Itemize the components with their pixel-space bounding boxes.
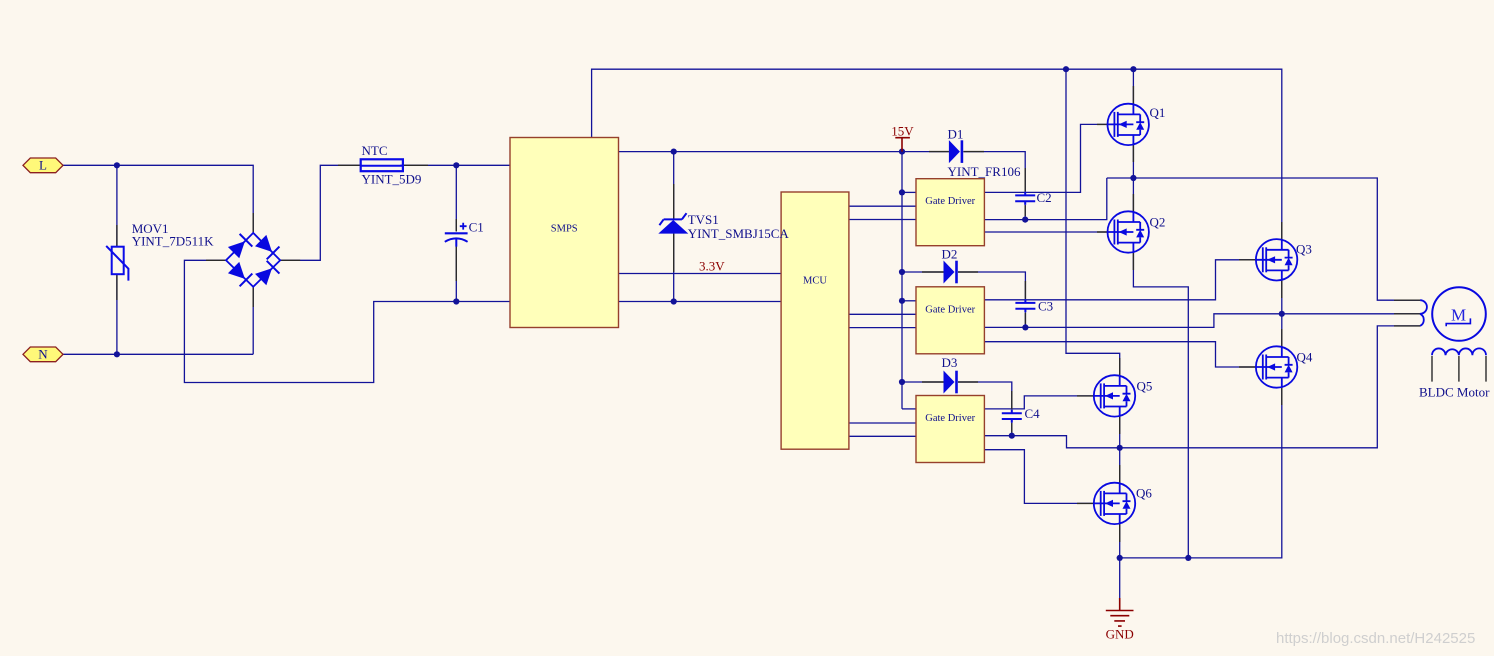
pin stubs D2 [922, 271, 978, 273]
svg-text:Q2: Q2 [1150, 215, 1166, 230]
capacitor C3 [1015, 299, 1053, 314]
wire 15V to gate driver 1 [902, 191, 916, 193]
svg-text:D3: D3 [942, 355, 958, 370]
bridge diode upper-right [254, 234, 279, 259]
bridge diode lower-left [227, 261, 252, 286]
power port 15V [891, 124, 914, 152]
wire gate driver 1 VS to phase A [984, 178, 1106, 220]
block SMPS [510, 138, 619, 328]
junction N-MOV [114, 351, 120, 357]
wire 15V net SMPS to D1 [619, 151, 949, 153]
pin stubs D1 [929, 151, 984, 153]
wire gate driver 3 VS to phase C [984, 436, 1119, 448]
wire bridge positive to NTC [280, 165, 361, 260]
wire 15V vertical distribution [901, 152, 903, 409]
junction rail Q1 [1130, 66, 1136, 72]
svg-text:Q1: Q1 [1150, 105, 1166, 120]
svg-text:BLDC Motor: BLDC Motor [1419, 385, 1490, 400]
wire rail to Q5 drain [1066, 69, 1120, 375]
svg-text:Gate Driver: Gate Driver [925, 413, 975, 424]
svg-text:YINT_SMBJ15CA: YINT_SMBJ15CA [688, 226, 790, 241]
pin stubs Q4 [1239, 329, 1282, 405]
wire MCU to gate driver 3 signal 1 [849, 422, 916, 424]
junction L-MOV [114, 162, 120, 168]
connector L [23, 158, 63, 173]
wire phase C to motor [1120, 326, 1420, 448]
pin stubs Q6 [1077, 465, 1120, 542]
junction C2 VS-A [1022, 217, 1028, 223]
wire MOV1 branch [116, 165, 118, 354]
wire L to bridge top [63, 165, 253, 233]
wire MCU to gate driver 1 signal 1 [849, 205, 916, 207]
wire Q6 drain [1119, 448, 1121, 483]
junction 15V D3 [899, 379, 905, 385]
diode D1 [948, 127, 1021, 180]
capacitor C1 [445, 220, 484, 247]
svg-text:MCU: MCU [803, 276, 827, 287]
wire 15V to D3 anode [902, 381, 944, 383]
svg-text:YINT_5D9: YINT_5D9 [362, 172, 422, 187]
transistor Q5 [1094, 375, 1153, 416]
junction 15V GD2 [899, 298, 905, 304]
pin legs motor coil [1432, 356, 1486, 382]
svg-text:N: N [38, 347, 48, 362]
transistor Q6 [1094, 483, 1153, 524]
wire 15V to gate driver 2 [902, 300, 916, 302]
svg-text:Q6: Q6 [1136, 486, 1152, 501]
wire gate driver 1 HO to Q1 gate [984, 124, 1107, 192]
pin stubs MOV1 [116, 225, 118, 300]
wire Q2 source to ground rail [1133, 253, 1188, 558]
svg-text:L: L [39, 158, 47, 173]
wire Q1 source [1132, 145, 1134, 178]
diode D3 [942, 355, 958, 394]
wire N to bridge bottom [63, 287, 253, 355]
bridge rectifier diamond [226, 233, 280, 287]
junction phase B node [1279, 311, 1285, 317]
pin stubs Q3 [1239, 222, 1282, 298]
pin stubs motor [1394, 300, 1420, 326]
svg-text:C1: C1 [469, 220, 484, 235]
wire C2 bottom to VS-A [1024, 205, 1026, 220]
pin stubs C2 [1024, 168, 1026, 216]
junction phase A node [1130, 175, 1136, 181]
junction phase C node [1117, 445, 1123, 451]
junction C3 VS-B [1022, 324, 1028, 330]
wire ground stem [1119, 558, 1121, 598]
pin stubs bridge [206, 213, 300, 307]
svg-text:Q3: Q3 [1296, 242, 1312, 257]
TVS diode TVS1 [658, 212, 789, 241]
wire 15V to D2 anode [902, 271, 944, 273]
svg-text:C4: C4 [1025, 406, 1041, 421]
svg-text:https://blog.csdn.net/H242525: https://blog.csdn.net/H242525 [1276, 630, 1475, 647]
wire gate driver 3 HO to Q5 gate [984, 396, 1093, 409]
pin stubs Q1 [1097, 86, 1133, 162]
junction C4 VS-C [1009, 433, 1015, 439]
svg-text:Q4: Q4 [1297, 350, 1313, 365]
block MCU [781, 192, 849, 449]
motor coil inductor [1432, 348, 1486, 355]
pin stubs Q2 [1097, 194, 1133, 270]
wire gate driver 3 LO to Q6 gate [984, 450, 1093, 504]
wire Q5 source [1119, 417, 1121, 448]
pin stubs Q5 [1077, 358, 1120, 434]
wire bridge negative to SMPS bottom-left [184, 260, 510, 382]
svg-text:Q5: Q5 [1137, 379, 1153, 394]
svg-text:15V: 15V [891, 124, 914, 139]
wire D1 cathode to C2 [963, 152, 1025, 192]
transistor Q3 [1256, 239, 1312, 280]
svg-text:3.3V: 3.3V [699, 259, 725, 274]
transistor Q4 [1256, 346, 1313, 387]
svg-text:YINT_7D511K: YINT_7D511K [132, 234, 214, 249]
wire 3.3V net SMPS to MCU [619, 273, 782, 275]
junction 15V GD1 [899, 189, 905, 195]
wire C3 bottom to VS-B [1024, 312, 1026, 327]
wire NTC to SMPS top-left [400, 164, 510, 166]
motor winding bumps [1420, 300, 1427, 326]
junction 15V tap [899, 149, 905, 155]
wire C4 bottom to VS-C [1011, 423, 1013, 436]
wire gate driver 1 LO to Q2 gate [984, 231, 1107, 233]
wire Q1 drain from rail [1132, 69, 1134, 104]
wire Q6 source [1119, 524, 1121, 558]
transistor Q1 [1108, 104, 1166, 145]
connector N [23, 347, 63, 362]
wire gate driver 2 LO to Q4 gate [984, 342, 1256, 367]
wire Q4 drain [1281, 314, 1283, 347]
junction ground Q6 [1117, 555, 1123, 561]
block gate driver 1 [916, 179, 984, 246]
pin stubs C4 [1011, 391, 1013, 433]
capacitor C4 [1002, 406, 1040, 423]
motor M circle [1432, 287, 1486, 341]
varistor MOV1 [106, 221, 214, 281]
wire gate driver 2 VS to phase B [984, 314, 1281, 328]
svg-text:GND: GND [1106, 627, 1134, 642]
pin stubs TVS1 [673, 184, 675, 272]
wire common rail SMPS to MCU [619, 301, 782, 303]
wire Q2 drain [1132, 178, 1134, 211]
junction 15V D2 [899, 269, 905, 275]
wire MCU to gate driver 2 signal 1 [849, 313, 916, 315]
wire C1 branch [455, 165, 457, 301]
junction TVS bottom [671, 298, 677, 304]
pin stubs C3 [1024, 281, 1026, 324]
transistor Q2 [1108, 211, 1166, 252]
wire Q4 source to ground rail [1120, 388, 1282, 558]
wire gate driver 2 HO to Q3 gate [984, 260, 1256, 300]
pin stubs D3 [922, 381, 978, 383]
svg-text:Gate Driver: Gate Driver [925, 304, 975, 315]
wire 15V to gate driver 3 [902, 408, 916, 410]
wire phase B to motor [1282, 313, 1420, 315]
junction C1 top [453, 162, 459, 168]
wire MCU to gate driver 2 signal 2 [849, 327, 916, 329]
bridge diode upper-left [227, 234, 252, 259]
svg-text:C2: C2 [1037, 190, 1052, 205]
bridge diode lower-right [254, 261, 279, 286]
wire SMPS top to DC+ rail [592, 69, 1282, 239]
svg-text:Gate Driver: Gate Driver [925, 196, 975, 207]
svg-text:NTC: NTC [362, 143, 388, 158]
block gate driver 3 [916, 396, 984, 463]
svg-text:D2: D2 [942, 247, 958, 262]
svg-text:C3: C3 [1038, 299, 1053, 314]
wire D2 cathode to C3 [958, 272, 1025, 299]
svg-text:M: M [1451, 306, 1466, 325]
diode D2 [942, 247, 958, 284]
wire D3 cathode to C4 [958, 382, 1012, 410]
wire MCU to gate driver 3 signal 2 [849, 435, 916, 437]
ground GND [1106, 598, 1134, 642]
junction C1 bottom [453, 298, 459, 304]
wire TVS1 branch [673, 152, 675, 302]
svg-text:TVS1: TVS1 [688, 212, 719, 227]
wire phase A to motor [1107, 178, 1420, 300]
wire MCU to gate driver 1 signal 2 [849, 219, 916, 221]
junction rail Q5 [1063, 66, 1069, 72]
thermistor NTC [361, 143, 422, 187]
wire Q3 source [1281, 281, 1283, 314]
junction TVS top [671, 149, 677, 155]
block gate driver 2 [916, 287, 984, 354]
svg-text:SMPS: SMPS [551, 224, 578, 235]
svg-text:D1: D1 [948, 127, 964, 142]
pin stubs C1 [455, 219, 457, 281]
svg-text:YINT_FR106: YINT_FR106 [948, 164, 1021, 179]
pin stubs NTC [338, 164, 428, 166]
junction ground Q2 [1185, 555, 1191, 561]
capacitor C2 [1015, 190, 1051, 205]
